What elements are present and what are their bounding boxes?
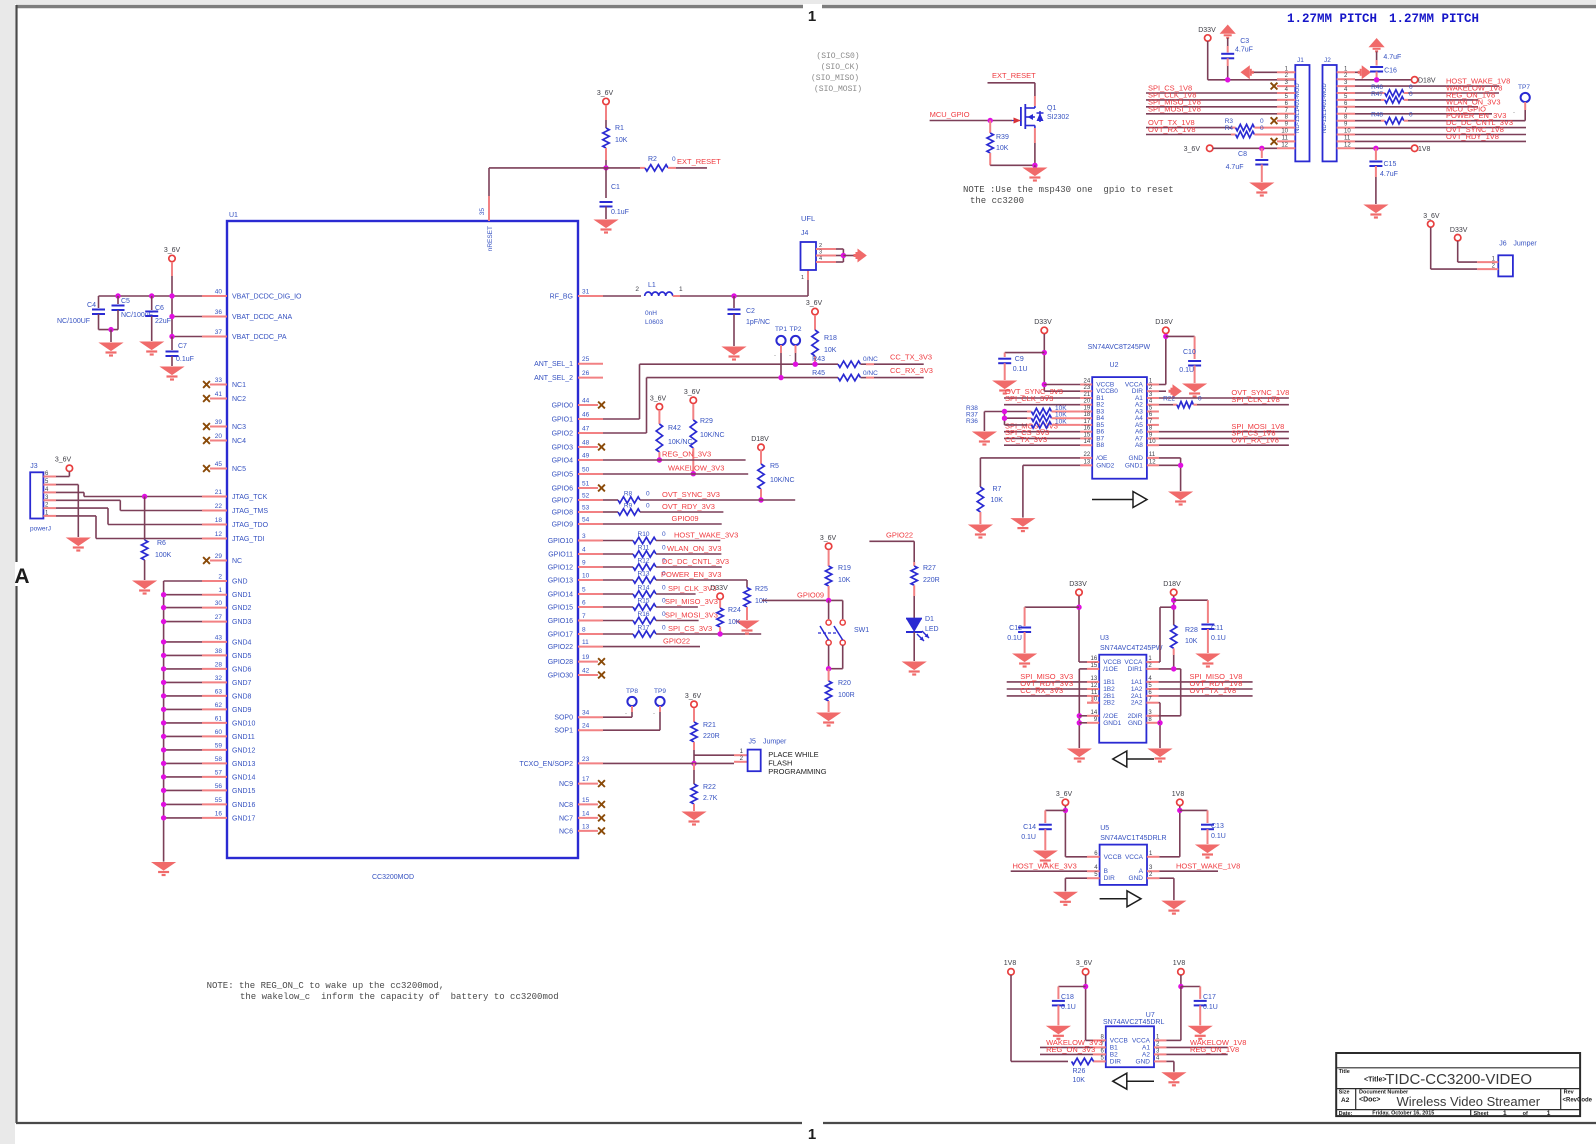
svg-text:GPIO17: GPIO17	[548, 632, 573, 639]
svg-text:40: 40	[215, 289, 223, 296]
svg-text:0.1uF: 0.1uF	[611, 209, 629, 216]
svg-text:J6: J6	[1499, 241, 1507, 248]
svg-text:2DIR: 2DIR	[1128, 713, 1143, 720]
svg-text:R39: R39	[996, 134, 1009, 141]
svg-text:GPIO14: GPIO14	[548, 592, 573, 599]
svg-text:10: 10	[1344, 129, 1351, 135]
svg-text:R14: R14	[638, 585, 650, 592]
svg-text:the cc3200: the cc3200	[970, 196, 1024, 206]
svg-text:19: 19	[582, 654, 590, 661]
svg-text:D33V: D33V	[710, 585, 728, 592]
svg-text:nRESET: nRESET	[487, 226, 494, 251]
svg-text:ANT_SEL_1: ANT_SEL_1	[534, 361, 573, 368]
svg-text:A8: A8	[1135, 442, 1143, 449]
svg-text:SOP0: SOP0	[554, 715, 573, 722]
svg-text:21: 21	[215, 489, 223, 496]
svg-text:C15: C15	[1384, 161, 1397, 168]
svg-text:1.27MM PITCH: 1.27MM PITCH	[1287, 12, 1377, 26]
svg-text:R11: R11	[638, 545, 650, 552]
svg-text:NC9: NC9	[559, 781, 573, 788]
svg-text:TP1: TP1	[775, 326, 787, 333]
svg-text:10K: 10K	[1055, 418, 1067, 425]
svg-text:GND7: GND7	[232, 680, 252, 687]
svg-text:10: 10	[1149, 439, 1156, 445]
svg-text:GND14: GND14	[232, 774, 255, 781]
svg-text:R29: R29	[700, 418, 713, 425]
svg-text:D33V: D33V	[1069, 581, 1087, 588]
svg-text:0: 0	[662, 585, 666, 592]
svg-text:REG_ON_3V3: REG_ON_3V3	[1046, 1045, 1095, 1054]
svg-text:R5: R5	[770, 463, 779, 470]
svg-text:10K/NC: 10K/NC	[770, 477, 795, 484]
svg-text:39: 39	[215, 419, 223, 426]
svg-text:REG_ON_3V3: REG_ON_3V3	[662, 450, 711, 459]
svg-text:-: -	[1513, 110, 1515, 116]
svg-text:GPIO22: GPIO22	[886, 531, 913, 540]
svg-text:GND11: GND11	[232, 734, 255, 741]
svg-text:52: 52	[582, 493, 590, 500]
svg-text:0.1uF: 0.1uF	[176, 356, 194, 363]
svg-text:0nH: 0nH	[645, 310, 657, 317]
svg-text:10K/NC: 10K/NC	[700, 432, 725, 439]
svg-text:0: 0	[1409, 91, 1413, 98]
svg-text:GPIO3: GPIO3	[552, 445, 574, 452]
svg-text:11: 11	[1149, 452, 1156, 458]
svg-text:1.27MM PITCH: 1.27MM PITCH	[1389, 12, 1479, 26]
svg-text:GND6: GND6	[232, 666, 252, 673]
svg-text:GPIO0: GPIO0	[552, 403, 574, 410]
svg-text:100R: 100R	[838, 692, 855, 699]
svg-text:11: 11	[1344, 135, 1351, 141]
svg-text:4: 4	[582, 547, 586, 554]
svg-text:10K: 10K	[991, 497, 1004, 504]
svg-text:23: 23	[582, 756, 590, 763]
svg-text:30: 30	[215, 600, 223, 607]
svg-text:NOTE :Use the msp430 one gpio: NOTE :Use the msp430 one gpio to reset	[963, 185, 1174, 195]
svg-text:55: 55	[215, 797, 223, 804]
svg-text:C13: C13	[1211, 823, 1224, 830]
svg-text:R12: R12	[638, 558, 650, 565]
svg-text:0.1U: 0.1U	[1179, 367, 1194, 374]
svg-text:GND: GND	[1129, 875, 1144, 882]
svg-text:GPIO12: GPIO12	[548, 565, 573, 572]
svg-text:TP2: TP2	[790, 326, 802, 333]
svg-text:NC3: NC3	[232, 424, 246, 431]
svg-text:0/NC: 0/NC	[863, 370, 878, 377]
svg-text:SPI_CLK_3V3: SPI_CLK_3V3	[668, 584, 716, 593]
svg-text:GND12: GND12	[232, 747, 255, 754]
svg-text:GND1: GND1	[1103, 720, 1121, 727]
svg-text:DIR: DIR	[1104, 875, 1116, 882]
svg-text:R43: R43	[812, 356, 825, 363]
svg-text:GND13: GND13	[232, 761, 255, 768]
svg-text:10K: 10K	[615, 137, 628, 144]
svg-text:9: 9	[582, 560, 586, 567]
svg-text:27: 27	[215, 614, 223, 621]
svg-text:0: 0	[646, 503, 650, 510]
svg-text:ND-13L1401-MUD: ND-13L1401-MUD	[1322, 83, 1328, 133]
svg-text:GND5: GND5	[232, 653, 252, 660]
svg-text:B2: B2	[1110, 1051, 1118, 1058]
svg-text:38: 38	[215, 648, 223, 655]
svg-text:22: 22	[1084, 452, 1091, 458]
svg-text:15: 15	[1084, 432, 1091, 438]
svg-text:3_6V: 3_6V	[597, 90, 614, 97]
svg-text:GPIO22: GPIO22	[663, 637, 690, 646]
svg-text:VBAT_DCDC_PA: VBAT_DCDC_PA	[232, 334, 287, 341]
svg-text:D1: D1	[925, 616, 934, 623]
svg-text:33: 33	[215, 377, 223, 384]
svg-text:Q1: Q1	[1047, 105, 1056, 112]
svg-text:11: 11	[1091, 690, 1098, 696]
svg-text:GPIO4: GPIO4	[552, 458, 574, 465]
svg-text:NC2: NC2	[232, 396, 246, 403]
svg-text:13: 13	[582, 823, 590, 830]
svg-text:24: 24	[582, 723, 590, 730]
svg-text:GPIO15: GPIO15	[548, 605, 573, 612]
svg-text:45: 45	[215, 461, 223, 468]
svg-text:NC5: NC5	[232, 466, 246, 473]
svg-text:GPIO16: GPIO16	[548, 618, 573, 625]
svg-text:REG_ON_1V8: REG_ON_1V8	[1190, 1045, 1239, 1054]
svg-text:D18V: D18V	[1418, 77, 1436, 84]
svg-text:-: -	[625, 711, 627, 717]
svg-text:C4: C4	[87, 302, 96, 309]
svg-text:15: 15	[1091, 663, 1098, 669]
svg-text:R45: R45	[812, 370, 825, 377]
svg-text:28: 28	[215, 661, 223, 668]
svg-text:0: 0	[662, 545, 666, 552]
svg-text:10K: 10K	[755, 598, 768, 605]
svg-text:R16: R16	[638, 611, 650, 618]
svg-text:NC: NC	[232, 558, 242, 565]
svg-text:TCXO_EN/SOP2: TCXO_EN/SOP2	[519, 761, 573, 768]
svg-text:2: 2	[635, 286, 639, 293]
svg-text:8: 8	[582, 627, 586, 634]
svg-text:C17: C17	[1203, 994, 1216, 1001]
svg-text:0.1U: 0.1U	[1013, 366, 1028, 373]
svg-text:C10: C10	[1183, 349, 1196, 356]
svg-text:GND1: GND1	[232, 592, 252, 599]
svg-text:3_6V: 3_6V	[1423, 213, 1440, 220]
svg-text:Jumper: Jumper	[1513, 241, 1537, 248]
svg-text:12: 12	[1281, 142, 1288, 148]
svg-text:the wakelow_c inform the capa: the wakelow_c inform the capacity of bat…	[240, 992, 559, 1002]
svg-text:3_6V: 3_6V	[806, 300, 823, 307]
svg-text:2: 2	[819, 243, 822, 249]
svg-text:18: 18	[1084, 412, 1091, 418]
svg-text:3_6V: 3_6V	[684, 389, 701, 396]
svg-text:0: 0	[672, 156, 676, 163]
svg-text:(SIO_MISO): (SIO_MISO)	[811, 74, 859, 83]
svg-text:32: 32	[215, 675, 223, 682]
svg-text:1: 1	[808, 1126, 816, 1143]
svg-text:R9: R9	[624, 503, 633, 510]
svg-text:11: 11	[1282, 135, 1289, 141]
svg-text:SOP1: SOP1	[554, 728, 573, 735]
svg-text:1V8: 1V8	[1173, 960, 1186, 967]
svg-text:JTAG_TCK: JTAG_TCK	[232, 494, 268, 501]
svg-text:GPIO9: GPIO9	[552, 522, 574, 529]
svg-text:R18: R18	[824, 335, 837, 342]
svg-text:12: 12	[1149, 459, 1156, 465]
svg-text:SN74AVC1T45DRLR: SN74AVC1T45DRLR	[1100, 835, 1166, 842]
svg-text:0/NC: 0/NC	[863, 356, 878, 363]
svg-text:NC7: NC7	[559, 815, 573, 822]
svg-text:R26: R26	[1073, 1068, 1086, 1075]
svg-text:D33V: D33V	[1034, 319, 1052, 326]
svg-text:GND1: GND1	[1125, 462, 1143, 469]
svg-text:37: 37	[215, 329, 223, 336]
svg-text:<Doc>: <Doc>	[1359, 1097, 1380, 1104]
svg-text:1V8: 1V8	[1004, 960, 1017, 967]
svg-text:CC_RX_3V3: CC_RX_3V3	[890, 366, 933, 375]
svg-text:3_6V: 3_6V	[820, 535, 837, 542]
svg-text:16: 16	[215, 810, 223, 817]
svg-text:R15: R15	[638, 598, 650, 605]
svg-text:58: 58	[215, 756, 223, 763]
svg-text:SPI_CLK_1V8: SPI_CLK_1V8	[1231, 395, 1279, 404]
svg-text:VCCA: VCCA	[1125, 854, 1144, 861]
svg-text:C14: C14	[1023, 824, 1036, 831]
svg-text:35: 35	[479, 208, 486, 216]
svg-text:29: 29	[215, 553, 223, 560]
svg-text:DIR: DIR	[1110, 1058, 1122, 1065]
svg-text:HOST_WAKE_1V8: HOST_WAKE_1V8	[1176, 861, 1240, 870]
svg-text:GND4: GND4	[232, 639, 252, 646]
svg-text:A2: A2	[1341, 1097, 1350, 1104]
svg-text:OVT_RDY_1V8: OVT_RDY_1V8	[1446, 132, 1499, 141]
svg-text:/1OE: /1OE	[1103, 666, 1118, 673]
svg-text:R4: R4	[1225, 125, 1234, 132]
svg-text:NC1: NC1	[232, 382, 246, 389]
svg-text:1V8: 1V8	[1172, 791, 1185, 798]
svg-text:CC3200MOD: CC3200MOD	[372, 874, 414, 881]
svg-text:GPIO30: GPIO30	[548, 673, 573, 680]
svg-text:GND2: GND2	[232, 605, 252, 612]
svg-text:U3: U3	[1100, 635, 1109, 642]
svg-text:R22: R22	[1163, 396, 1175, 403]
svg-text:GPIO10: GPIO10	[548, 538, 573, 545]
svg-text:(SIO_MOSI): (SIO_MOSI)	[814, 85, 862, 94]
svg-text:TIDC-CC3200-VIDEO: TIDC-CC3200-VIDEO	[1385, 1071, 1532, 1088]
svg-text:Rev: Rev	[1564, 1090, 1575, 1096]
svg-text:24: 24	[1084, 379, 1091, 385]
svg-text:GND: GND	[232, 579, 248, 586]
svg-text:61: 61	[215, 715, 223, 722]
svg-text:TP8: TP8	[626, 688, 638, 695]
svg-text:LED: LED	[925, 626, 939, 633]
svg-text:(SIO_CS0): (SIO_CS0)	[816, 52, 859, 61]
svg-text:U2: U2	[1110, 362, 1119, 369]
svg-text:VCCB: VCCB	[1104, 854, 1122, 861]
svg-text:U7: U7	[1146, 1012, 1155, 1019]
svg-text:DC_DC_CNTL_3V3: DC_DC_CNTL_3V3	[662, 557, 729, 566]
svg-text:GPIO22: GPIO22	[548, 644, 573, 651]
svg-text:22uF: 22uF	[155, 318, 171, 325]
svg-text:-: -	[789, 353, 791, 359]
svg-text:12: 12	[215, 531, 223, 538]
svg-text:GND16: GND16	[232, 802, 255, 809]
svg-text:R27: R27	[923, 565, 936, 572]
svg-text:R42: R42	[668, 425, 681, 432]
svg-text:VCCB: VCCB	[1110, 1037, 1128, 1044]
svg-text:D18V: D18V	[751, 436, 769, 443]
svg-text:SPI_CLK_3V3: SPI_CLK_3V3	[1005, 394, 1053, 403]
svg-text:A: A	[1139, 868, 1144, 875]
svg-text:TP9: TP9	[654, 688, 666, 695]
svg-text:MCU_GPIO: MCU_GPIO	[930, 110, 970, 119]
svg-text:0: 0	[662, 531, 666, 538]
svg-text:SPI_MOSI_3V3: SPI_MOSI_3V3	[665, 611, 718, 620]
svg-text:26: 26	[582, 370, 590, 377]
svg-text:OVT_SYNC_3V3: OVT_SYNC_3V3	[662, 490, 720, 499]
svg-text:GND9: GND9	[232, 707, 252, 714]
svg-text:3_6V: 3_6V	[650, 396, 667, 403]
svg-text:C16: C16	[1384, 68, 1397, 75]
svg-text:GND3: GND3	[232, 619, 252, 626]
svg-text:C6: C6	[155, 305, 164, 312]
svg-text:VCCA: VCCA	[1132, 1037, 1151, 1044]
svg-text:J4: J4	[801, 230, 809, 237]
svg-text:34: 34	[582, 710, 590, 717]
svg-text:NC6: NC6	[559, 828, 573, 835]
svg-text:0: 0	[662, 625, 666, 632]
svg-text:GND8: GND8	[232, 693, 252, 700]
svg-text:GPIO1: GPIO1	[552, 417, 574, 424]
svg-text:NC/100UF: NC/100UF	[57, 318, 90, 325]
svg-text:SW1: SW1	[854, 627, 869, 634]
svg-text:7: 7	[582, 613, 586, 620]
svg-text:B: B	[1104, 868, 1108, 875]
svg-text:<RevCode: <RevCode	[1563, 1098, 1593, 1104]
svg-text:0.1U: 0.1U	[1021, 834, 1036, 841]
svg-text:41: 41	[215, 391, 223, 398]
svg-text:50: 50	[582, 467, 590, 474]
svg-text:JTAG_TMS: JTAG_TMS	[232, 508, 268, 515]
svg-text:12: 12	[1091, 683, 1098, 689]
svg-text:<Title>: <Title>	[1364, 1077, 1386, 1084]
svg-text:1: 1	[808, 8, 816, 25]
svg-text:53: 53	[582, 505, 590, 512]
svg-text:Wireless Video Streamer: Wireless Video Streamer	[1397, 1094, 1541, 1109]
svg-text:0.1U: 0.1U	[1007, 635, 1022, 642]
svg-text:WLAN_ON_3V3: WLAN_ON_3V3	[667, 544, 722, 553]
svg-text:D18V: D18V	[1155, 319, 1173, 326]
svg-text:R13: R13	[638, 571, 650, 578]
svg-text:GND15: GND15	[232, 788, 255, 795]
svg-text:powerJ: powerJ	[30, 526, 51, 533]
svg-text:J5: J5	[749, 739, 757, 746]
svg-text:GND2: GND2	[1096, 462, 1114, 469]
svg-text:19: 19	[1084, 406, 1091, 412]
svg-text:10K/NC: 10K/NC	[668, 439, 693, 446]
svg-text:NC8: NC8	[559, 802, 573, 809]
svg-text:17: 17	[1084, 419, 1091, 425]
svg-text:R6: R6	[157, 540, 166, 547]
svg-text:C3: C3	[1240, 38, 1249, 45]
svg-text:1V8: 1V8	[1418, 146, 1431, 153]
svg-text:3_6V: 3_6V	[1184, 146, 1201, 153]
svg-text:C8: C8	[1238, 151, 1247, 158]
svg-text:U5: U5	[1100, 825, 1109, 832]
svg-text:Title: Title	[1339, 1069, 1350, 1075]
svg-text:3_6V: 3_6V	[1056, 791, 1073, 798]
svg-text:0: 0	[646, 491, 650, 498]
svg-text:A1: A1	[1142, 1044, 1150, 1051]
svg-text:48: 48	[582, 440, 590, 447]
svg-text:1: 1	[218, 587, 222, 594]
svg-text:OVT_TX_1V8: OVT_TX_1V8	[1190, 686, 1237, 695]
svg-text:0.1U: 0.1U	[1203, 1004, 1218, 1011]
svg-text:4.7uF: 4.7uF	[1226, 164, 1244, 171]
svg-text:C7: C7	[178, 343, 187, 350]
svg-text:16: 16	[1091, 656, 1098, 662]
svg-text:0: 0	[1260, 125, 1264, 132]
svg-text:A2: A2	[1142, 1051, 1150, 1058]
svg-text:4: 4	[819, 256, 822, 262]
svg-text:1B1: 1B1	[1103, 679, 1115, 686]
svg-text:GND: GND	[1128, 720, 1143, 727]
svg-text:57: 57	[215, 769, 223, 776]
svg-text:220R: 220R	[703, 733, 720, 740]
svg-text:of: of	[1523, 1111, 1528, 1117]
svg-text:220R: 220R	[923, 577, 940, 584]
svg-text:1: 1	[801, 275, 804, 281]
svg-text:18: 18	[215, 517, 223, 524]
svg-text:-: -	[774, 353, 776, 359]
svg-text:(SIO_CK): (SIO_CK)	[821, 63, 859, 72]
svg-text:GPIO6: GPIO6	[552, 486, 574, 493]
svg-text:42: 42	[582, 668, 590, 675]
svg-text:C18: C18	[1061, 994, 1074, 1001]
svg-text:C5: C5	[121, 298, 130, 305]
svg-text:25: 25	[582, 356, 590, 363]
svg-text:22: 22	[215, 503, 223, 510]
svg-text:A: A	[14, 565, 29, 588]
svg-text:C1: C1	[611, 184, 620, 191]
svg-text:10K: 10K	[838, 577, 851, 584]
svg-text:CC_TX_3V3: CC_TX_3V3	[890, 353, 932, 362]
svg-text:U1: U1	[229, 212, 238, 219]
svg-text:54: 54	[582, 517, 590, 524]
svg-text:59: 59	[215, 742, 223, 749]
svg-text:51: 51	[582, 481, 590, 488]
svg-text:TP7: TP7	[1518, 84, 1530, 91]
svg-text:GND: GND	[1128, 455, 1143, 462]
svg-text:10K: 10K	[1073, 1077, 1086, 1084]
svg-text:RF_BG: RF_BG	[550, 294, 573, 301]
svg-text:L0603: L0603	[645, 319, 663, 326]
svg-text:47: 47	[582, 426, 590, 433]
svg-text:4.7uF: 4.7uF	[1383, 54, 1401, 61]
svg-text:WAKELOW_3V3: WAKELOW_3V3	[668, 464, 724, 473]
svg-text:17: 17	[582, 776, 590, 783]
svg-text:20: 20	[215, 433, 223, 440]
svg-text:R28: R28	[1185, 627, 1198, 634]
svg-text:Sheet: Sheet	[1474, 1111, 1489, 1117]
svg-text:0.1U: 0.1U	[1211, 833, 1226, 840]
svg-text:13: 13	[1091, 676, 1098, 682]
svg-text:2.7K: 2.7K	[703, 795, 718, 802]
svg-text:14: 14	[1084, 439, 1091, 445]
svg-text:23: 23	[1084, 385, 1091, 391]
svg-text:SI2302: SI2302	[1047, 114, 1069, 121]
svg-text:3_6V: 3_6V	[55, 457, 72, 464]
svg-text:C9: C9	[1015, 356, 1024, 363]
svg-text:R48: R48	[1371, 112, 1383, 119]
svg-text:R21: R21	[703, 722, 716, 729]
